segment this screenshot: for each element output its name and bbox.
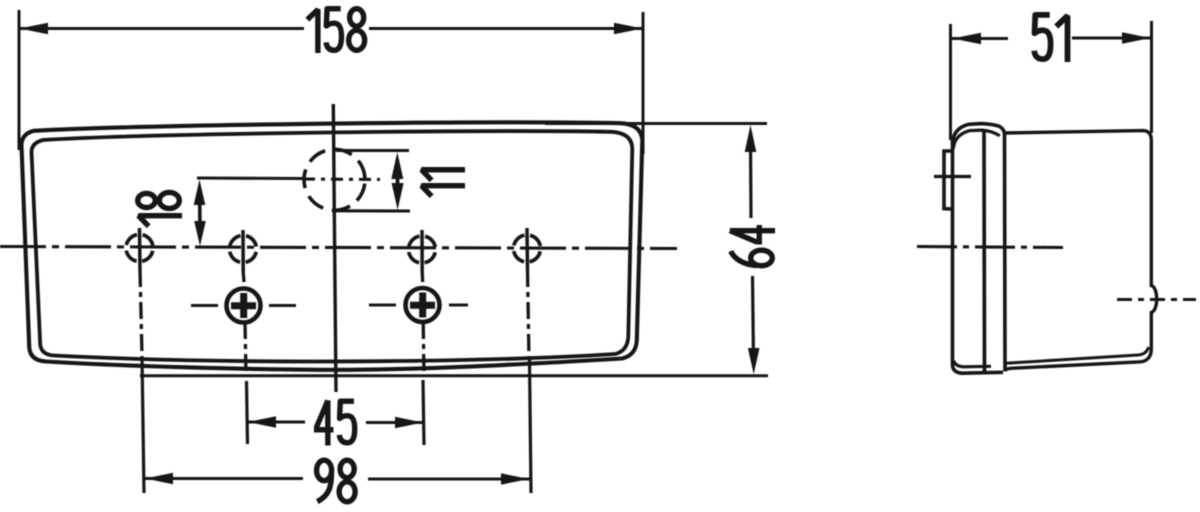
dimension 11 value label (rotated) [422,170,465,197]
dimension 18 horizontal reference line [197,176,303,180]
dimension 11 up arrowhead [391,152,403,179]
dimension 64 upper shaft [749,140,753,218]
dimension 51 left arrowhead [953,33,982,44]
dimension 158 line left segment [19,27,304,30]
dimension 18 down arrowhead [194,221,206,246]
dimension 98 right arrowhead [501,473,529,484]
side view lens left edge and bottom [953,139,1004,373]
dimension 45 right extension line [423,380,424,445]
side view lens top outer curve [953,124,1005,143]
dimension 11 bottom reference line [336,209,410,212]
dimension 45 right arrowhead [395,417,423,428]
dimension 18 value label (rotated) [138,192,182,226]
dimension 18 shaft [198,200,202,230]
dimension 51 line right segment [1072,37,1150,40]
side view screw axis dash-dot line [1117,298,1196,301]
lamp body inner outline (front view) [32,131,633,361]
mounting hole crosshair 1 [126,228,153,356]
screw head symbol left [191,289,296,323]
lamp body outer outline (front view) [21,122,642,369]
dimension 64 bottom extension line [140,374,768,377]
dimension 158 right extension line [642,12,645,154]
dimension 98 right extension line [530,360,532,493]
side view housing front vertical edge [1003,132,1007,372]
dimension 45 left arrowhead [248,416,276,427]
dimension 98 line right segment [368,477,530,480]
dimension 64 top extension line [545,122,767,125]
side view housing bottom outer edge [1005,362,1141,370]
dimension 11 shaft [395,164,399,198]
dimension 18 up arrowhead [194,180,206,206]
dimension 64 lower shaft [753,276,754,362]
dimension 158 left extension line [18,10,21,150]
dimension 11 down arrowhead [392,183,404,210]
dimension 64 down arrowhead [748,348,760,374]
dimension 98 left arrowhead [145,473,173,484]
dimension 98 value label [317,460,356,502]
vertical center line of front view [333,104,336,392]
dimension 45 line right segment [366,421,423,424]
side view housing bottom inner line [1006,347,1149,363]
dimension 45 line left segment [247,420,305,423]
screw head symbol right [369,288,468,322]
dimension 158 value label [307,9,364,53]
mounting hole crosshair 3 [409,230,436,376]
side view lens bottom inner line [954,361,992,367]
dimension 158 line right segment [369,27,643,30]
dimension 98 line left segment [144,477,303,480]
dimension 98 left extension line [142,356,144,493]
dimension 64 value label (rotated) [730,225,775,266]
dimension 45 value label [314,400,355,445]
dimension 51 value label [1034,15,1067,62]
side view tab cross line [934,175,971,178]
side view lens top inner curve [953,130,1000,149]
dimension 51 right extension line [1150,21,1153,133]
dimension 64 up arrowhead [745,125,757,152]
dimension 51 line left segment [952,37,1008,40]
dimension 158 right arrowhead [614,23,643,34]
mounting hole crosshair 4 [514,228,541,360]
dimension 51 left extension line [949,24,952,140]
circle horizontal center dash-dot [303,177,380,181]
dimension 45 left extension line [247,381,248,444]
side view mounting tab [944,151,952,209]
horizontal center line of front view [0,247,677,249]
side view housing right edge with screw bump [1141,140,1157,362]
mounting hole crosshair 2 [230,230,257,376]
dimension 158 left arrowhead [20,23,49,34]
side view lens rear vertical edge [982,129,986,372]
dashed circle (lamp function) at top center [304,149,365,210]
dimension 51 right arrowhead [1122,32,1151,43]
side view housing top edge [1005,131,1152,140]
side view horizontal center line [917,247,1063,248]
dimension 11 top reference line [336,149,409,152]
